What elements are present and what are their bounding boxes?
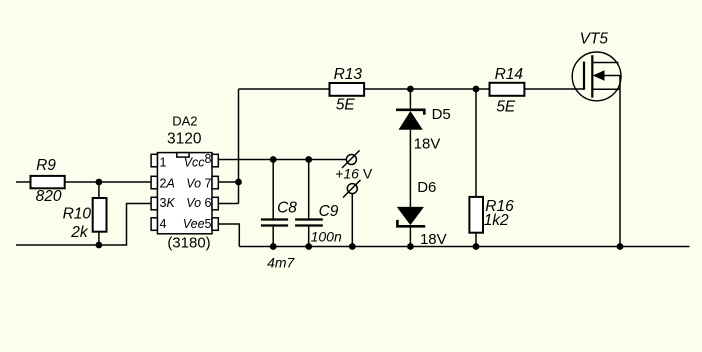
svg-text:C8: C8 bbox=[277, 200, 297, 217]
wire top rail to D5 bbox=[409, 89, 411, 108]
svg-text:2k: 2k bbox=[70, 224, 89, 241]
svg-text:18V: 18V bbox=[420, 231, 447, 248]
svg-text:C9: C9 bbox=[319, 203, 339, 220]
svg-text:3120: 3120 bbox=[167, 131, 202, 148]
wire lower terminal to rail bbox=[351, 194, 353, 247]
node junction R9/R10 bbox=[96, 179, 103, 186]
node junction C9 top bbox=[305, 156, 312, 163]
svg-text:4m7: 4m7 bbox=[267, 255, 295, 271]
resistor R9 bbox=[31, 176, 65, 188]
terminal +16V upper bbox=[346, 155, 356, 165]
wire R9 to pin 2 bbox=[65, 181, 152, 183]
wire bottom-left rail bbox=[16, 204, 151, 246]
svg-text:R10: R10 bbox=[63, 205, 92, 222]
capacitor C9 bbox=[295, 220, 323, 226]
wire D6 to rail bbox=[409, 228, 411, 247]
svg-text:1k2: 1k2 bbox=[484, 212, 509, 229]
wire riser feedback bbox=[238, 89, 240, 204]
node junction VT5 source rail bbox=[617, 243, 624, 250]
terminal +16V lower bbox=[347, 184, 357, 194]
resistor R14 bbox=[490, 83, 525, 96]
svg-text:100n: 100n bbox=[311, 228, 342, 244]
svg-text:R13: R13 bbox=[334, 66, 363, 83]
transistor VT5 body arrow bbox=[593, 70, 605, 80]
node junction R16 bottom bbox=[473, 243, 480, 250]
pin 7 box bbox=[212, 176, 218, 189]
node junction C9 bottom bbox=[305, 243, 312, 250]
pin 5 box bbox=[212, 218, 218, 231]
notch DA2 bbox=[177, 153, 189, 158]
resistor R16 bbox=[469, 197, 483, 233]
node junction C8 bottom bbox=[270, 243, 277, 250]
transistor VT5 gate bar bbox=[583, 62, 585, 90]
wire pin 8 Vcc to +16V terminal bbox=[218, 159, 346, 161]
pin 3 box bbox=[151, 197, 157, 210]
svg-text:VT5: VT5 bbox=[580, 30, 609, 47]
transistor VT5 channel bar bbox=[591, 55, 593, 97]
wire top rail to R16 bbox=[475, 89, 477, 197]
node junction C8 top bbox=[270, 156, 277, 163]
wire R10 to ground rail bbox=[98, 232, 100, 245]
capacitor C8 bbox=[261, 220, 288, 226]
wire junction to R10 bbox=[98, 182, 100, 198]
node junction pin7 riser bbox=[235, 179, 242, 186]
wire bottom-right rail bbox=[239, 246, 689, 248]
svg-text:1: 1 bbox=[160, 156, 167, 170]
wire pin 6 bbox=[218, 203, 238, 205]
svg-text:(3180): (3180) bbox=[167, 235, 210, 252]
wire top rail mid bbox=[364, 88, 489, 90]
svg-text:D6: D6 bbox=[417, 179, 436, 196]
wire VT5 source to rail bbox=[619, 89, 621, 246]
resistor R13 bbox=[330, 83, 365, 96]
svg-text:2A: 2A bbox=[160, 176, 175, 190]
wire C8 top bbox=[272, 160, 274, 219]
svg-text:R9: R9 bbox=[36, 157, 56, 174]
op-amp U1 DA2 body bbox=[157, 153, 212, 234]
svg-text:4: 4 bbox=[160, 217, 167, 231]
pin 2 box bbox=[151, 176, 157, 189]
wire R14 to gate bbox=[524, 88, 584, 90]
wire pin 5 Vee bbox=[218, 224, 239, 247]
svg-text:Vo 6: Vo 6 bbox=[186, 196, 211, 210]
wire D5 to D6 bbox=[409, 130, 411, 207]
transistor VT5 circle bbox=[572, 52, 621, 101]
svg-text:+16 V: +16 V bbox=[335, 165, 373, 181]
resistor R10 bbox=[93, 198, 107, 232]
pin 8 box bbox=[212, 154, 218, 167]
svg-text:820: 820 bbox=[36, 188, 62, 205]
wire R16 to rail bbox=[475, 233, 477, 247]
pin 1 box bbox=[151, 154, 157, 167]
wire C9 bottom bbox=[308, 227, 310, 247]
svg-text:5E: 5E bbox=[336, 97, 356, 114]
transistor VT5 source line bbox=[592, 88, 620, 90]
pin 4 box bbox=[151, 218, 157, 231]
wire C9 top bbox=[308, 160, 310, 219]
node junction D5 top bbox=[407, 86, 414, 93]
svg-text:Vee5: Vee5 bbox=[183, 217, 212, 231]
node junction R10 ground bbox=[96, 242, 103, 249]
wire input to R9 bbox=[16, 181, 31, 183]
svg-text:18V: 18V bbox=[414, 136, 441, 153]
svg-text:D5: D5 bbox=[432, 106, 451, 123]
wire C8 bottom bbox=[272, 227, 274, 247]
pin 6 box bbox=[212, 197, 218, 210]
transistor VT5 drain line bbox=[592, 62, 618, 64]
diode D5 zener bbox=[396, 110, 424, 115]
node junction R16 top bbox=[473, 86, 480, 93]
svg-text:DA2: DA2 bbox=[172, 114, 197, 129]
node junction terminal bottom bbox=[349, 243, 356, 250]
svg-text:3K: 3K bbox=[160, 196, 176, 210]
svg-text:R14: R14 bbox=[495, 66, 524, 83]
diode D6 zener bbox=[397, 207, 424, 225]
wire top rail left bbox=[239, 88, 330, 90]
node junction D6 bottom bbox=[407, 243, 414, 250]
transistor VT5 body line bbox=[604, 76, 621, 90]
svg-text:5E: 5E bbox=[496, 99, 516, 116]
wire pin 7 bbox=[218, 181, 238, 183]
svg-text:Vo 7: Vo 7 bbox=[186, 176, 211, 190]
